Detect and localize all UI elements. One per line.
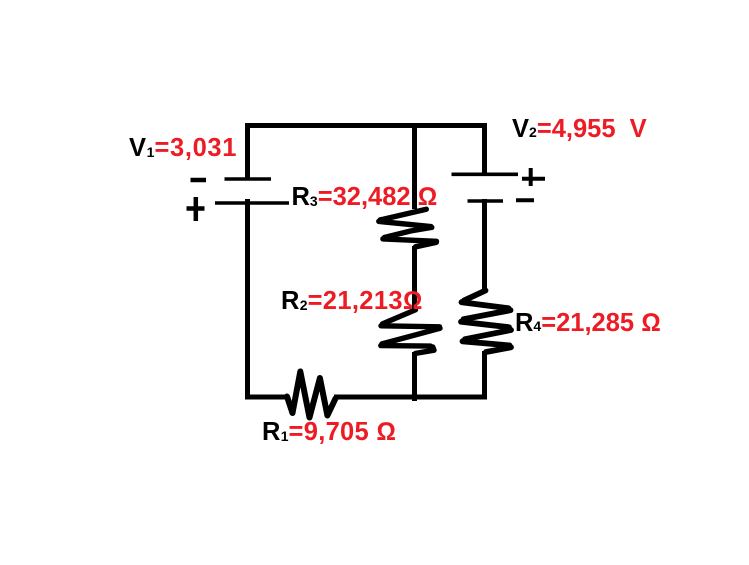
battery V2 bottom plate (negative, short bar) xyxy=(468,199,504,203)
resistor R4 zigzag xyxy=(461,291,511,353)
label R1 value text xyxy=(262,420,396,446)
wire: bottom left segment xyxy=(245,395,288,400)
resistor R3 zigzag xyxy=(379,209,437,247)
wire: top horizontal xyxy=(245,123,487,128)
label V1 value text xyxy=(129,136,237,162)
wire: right vertical mid (battery V2 to R4) xyxy=(482,199,487,292)
resistor R1 zigzag xyxy=(287,372,336,418)
battery V1 bottom plate (positive, long bar) xyxy=(215,201,289,205)
stray pen dot artifact xyxy=(395,222,398,225)
label R2 value text xyxy=(281,289,423,315)
wire: right vertical upper (top wire to battery V2) xyxy=(482,123,487,175)
battery V1 top plate (negative, short bar) xyxy=(225,177,272,181)
wire: left vertical lower (battery V1 to bottom wire) xyxy=(245,199,250,399)
label R3 value text xyxy=(292,185,438,211)
label R4 value text xyxy=(515,311,661,337)
wire: bottom right segment xyxy=(334,395,487,400)
plus sign of V2 xyxy=(522,168,545,186)
wire: middle vertical upper (top wire to R3) xyxy=(412,123,417,209)
battery V2 top plate (positive, long bar) xyxy=(452,173,519,177)
wire: middle vertical between R3 and R2 xyxy=(412,246,417,311)
plus sign of V1 xyxy=(187,197,205,221)
wire: middle vertical lower (R2 to below bottom wire) xyxy=(412,352,417,401)
wire: left vertical upper (top wire to battery V1) xyxy=(245,123,250,179)
resistor R2 zigzag xyxy=(381,310,440,354)
label V2 value text xyxy=(512,117,647,143)
minus sign of V1 xyxy=(191,178,207,183)
wire: right vertical lower (R4 to bottom wire) xyxy=(482,351,487,399)
minus sign of V2 xyxy=(516,198,534,202)
